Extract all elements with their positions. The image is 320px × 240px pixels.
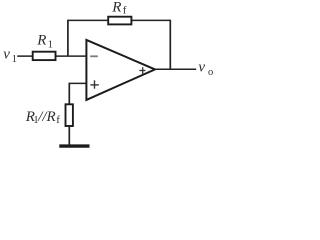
svg-text:v: v <box>3 47 10 63</box>
svg-text:o: o <box>208 67 213 78</box>
svg-text:1: 1 <box>12 54 17 65</box>
svg-text://R: //R <box>37 109 56 125</box>
svg-text:R: R <box>36 32 46 48</box>
svg-text:R: R <box>111 0 121 16</box>
node vo <box>198 59 213 78</box>
node v1 <box>3 47 17 65</box>
resistor Rf <box>108 0 131 24</box>
op-amp U1 <box>86 40 155 100</box>
wire <box>68 83 70 105</box>
wire <box>169 20 171 70</box>
wire <box>68 19 170 21</box>
wire <box>67 20 69 56</box>
resistor R1 <box>33 32 56 60</box>
wire <box>17 55 86 57</box>
wire <box>69 82 86 84</box>
svg-text:v: v <box>198 59 205 75</box>
resistor R1//Rf <box>25 104 73 126</box>
svg-text:f: f <box>123 4 127 16</box>
svg-text:f: f <box>56 114 60 126</box>
ground <box>59 144 89 147</box>
wire <box>155 68 196 70</box>
wire <box>68 126 70 145</box>
svg-text:1: 1 <box>48 39 53 50</box>
